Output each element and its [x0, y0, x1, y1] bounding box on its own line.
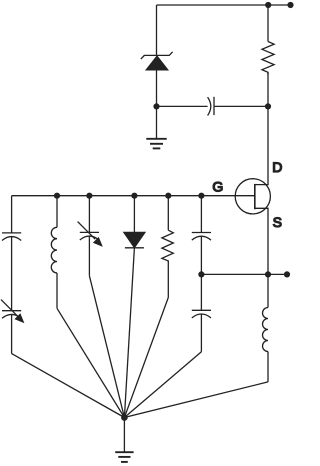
- wire branch6 mid: [200, 237, 202, 311]
- capacitor C6 curved plate: [192, 314, 211, 318]
- capacitor C1 straight plate: [213, 97, 215, 115]
- wire zener to ground: [156, 70, 158, 139]
- junction bus D2: [131, 193, 137, 199]
- wire top rail: [157, 4, 291, 6]
- zener diode D1: [146, 56, 167, 70]
- wire branch2 slant: [57, 308, 124, 417]
- resistor R2: [162, 230, 173, 262]
- terminal top-right: [287, 2, 293, 8]
- capacitor C2 curved plate: [2, 237, 21, 241]
- junction bus L1: [54, 193, 60, 199]
- wire branch3 lower: [88, 236, 90, 275]
- resistor R1: [262, 42, 274, 75]
- wire branch5 lower: [167, 261, 169, 298]
- junction bus C5: [198, 193, 204, 199]
- wire branch5 slant: [124, 298, 168, 418]
- wire branch7 slant: [124, 382, 268, 418]
- junction top-right: [265, 2, 271, 8]
- capacitor C5 straight plate: [192, 232, 211, 234]
- wire branch1 lower: [11, 315, 13, 354]
- wire branch2 upper: [56, 196, 58, 228]
- wire S row: [201, 273, 287, 275]
- transistor Q1 body: [235, 179, 270, 214]
- wire branch6 lower: [200, 314, 202, 352]
- wire branch3 slant: [89, 276, 124, 418]
- wire zener branch upper: [156, 5, 158, 55]
- capacitor C2 straight plate: [2, 232, 21, 234]
- wire gate bus: [12, 195, 255, 197]
- wire branch2 lower: [56, 273, 58, 308]
- wire top-right vertical: [267, 5, 269, 42]
- svg-text:D: D: [272, 159, 282, 175]
- diode D2 cathode bar: [125, 247, 144, 249]
- wire branch4 slant: [124, 248, 134, 418]
- wire branch1 slant: [12, 354, 125, 418]
- wire ground stub: [123, 418, 125, 453]
- zener diode D1 cathode bar: [141, 52, 173, 59]
- terminal S-row: [284, 271, 290, 277]
- junction below resistor R1: [265, 103, 271, 109]
- junction S-row right: [265, 271, 271, 277]
- wire branch7 upper: [267, 274, 269, 307]
- wire cap C1 left: [157, 105, 208, 107]
- wire branch5 upper: [167, 196, 169, 231]
- junction bus R2: [165, 193, 171, 199]
- inductor L1: [51, 227, 57, 273]
- wire branch1 mid: [11, 237, 13, 311]
- wire branch6 upper: [200, 196, 202, 233]
- junction S-row left: [198, 271, 204, 277]
- inductor L2: [263, 308, 268, 352]
- wire branch1 upper: [11, 196, 13, 233]
- wire branch3 upper: [88, 196, 90, 233]
- varcap C4 arrow: [78, 222, 96, 240]
- junction below zener: [153, 103, 159, 109]
- varcap C4 curved plate: [80, 236, 99, 240]
- wire branch6 slant: [124, 352, 201, 418]
- capacitor C5 curved plate: [192, 236, 211, 240]
- varcap C4 straight plate: [80, 231, 99, 233]
- wire branch4 upper: [133, 196, 135, 233]
- transistor Q1 gate bar: [254, 184, 256, 209]
- capacitor C6 straight plate: [192, 309, 211, 311]
- ground G2: [115, 452, 133, 462]
- varcap C3 arrow: [1, 300, 19, 318]
- diode D2: [124, 232, 145, 247]
- wire cap C1 right: [214, 105, 268, 107]
- wire branch7 lower: [267, 352, 269, 382]
- wire source: [255, 208, 268, 274]
- wire drain: [255, 73, 268, 185]
- varcap C3 curved plate: [2, 314, 21, 318]
- varcap C3 straight plate: [2, 310, 21, 312]
- svg-text:G: G: [212, 179, 223, 195]
- ground G1: [146, 139, 166, 149]
- capacitor C1 curved plate: [208, 97, 211, 115]
- junction ground node: [121, 414, 128, 421]
- svg-text:S: S: [273, 214, 282, 230]
- junction bus C4: [86, 193, 92, 199]
